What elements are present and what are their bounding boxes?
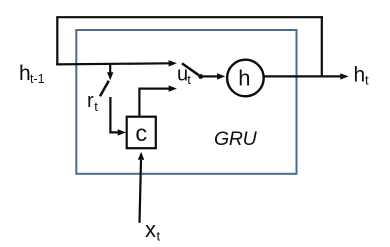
svg-text:t: t [94,99,98,114]
switch r_t [100,81,109,96]
circle h [227,60,264,97]
wire feedback left vertical [56,17,58,64]
svg-text:c: c [135,120,147,146]
svg-text:r: r [87,90,94,112]
wire x_t input [140,160,142,223]
svg-text:t: t [365,73,369,88]
svg-text:GRU: GRU [214,128,258,150]
svg-text:h: h [354,64,366,87]
box c [127,117,156,149]
svg-text:t-1: t-1 [30,72,45,86]
svg-text:t: t [157,229,161,244]
wire h circle to h_t output [264,75,342,77]
switch u_t [182,63,199,75]
GRU box U1 [76,30,296,174]
wire c to u_t switch [139,89,169,117]
wire h_t-1 to u_t switch [56,63,169,64]
svg-text:h: h [238,66,250,91]
svg-text:x: x [145,217,156,242]
wire junction stub down to r_t switch [109,64,111,73]
junction dot u_t [198,74,203,79]
wire u_t dot to h circle [203,75,218,77]
wire feedback top horizontal [56,16,323,18]
wire feedback right vertical [321,16,323,76]
svg-text:t: t [187,72,191,87]
svg-text:h: h [19,62,31,85]
wire r_t switch to c box [110,97,118,132]
